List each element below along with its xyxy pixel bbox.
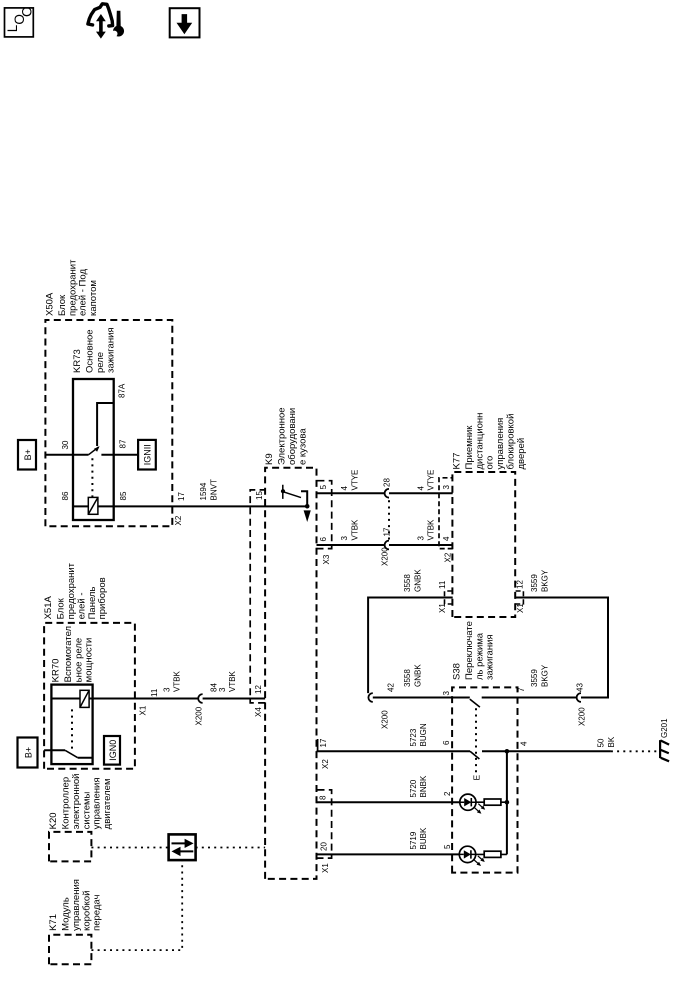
svg-text:E: E bbox=[471, 775, 481, 781]
connector X4 strip on K9 top edge bbox=[250, 490, 265, 703]
svg-text:BNVT: BNVT bbox=[209, 479, 218, 500]
svg-text:85: 85 bbox=[119, 491, 128, 500]
svg-text:X1: X1 bbox=[438, 603, 447, 613]
S38 ganged switch dotted link bbox=[475, 708, 477, 772]
serial data symbol box bbox=[169, 834, 196, 860]
inline connector X200 pin 17 bbox=[385, 541, 389, 550]
svg-text:11: 11 bbox=[150, 688, 159, 697]
svg-text:системы: системы bbox=[81, 791, 92, 829]
wire B+ to KR73 pin 30 bbox=[45, 454, 88, 456]
IGNII box bbox=[138, 440, 156, 470]
ground symbol G201 bbox=[659, 740, 661, 758]
svg-text:двигателем: двигателем bbox=[102, 778, 113, 829]
LED rail wire bbox=[506, 751, 508, 854]
page-oriented toolbar icons bbox=[0, 0, 220, 60]
KR73 87 fixed contact bbox=[101, 454, 113, 456]
X1 stub at K77 pin 11 bbox=[445, 591, 453, 604]
S38 contact blade pin 3 bbox=[470, 699, 480, 707]
svg-text:X200: X200 bbox=[381, 547, 390, 566]
svg-text:Переключате: Переключате bbox=[464, 621, 475, 680]
block K77 keyless entry receiver - dashed enclosure bbox=[452, 472, 515, 617]
KR70 coil-blade dotted link bbox=[71, 707, 73, 748]
LED indicator 1 (pin 2) bbox=[460, 794, 476, 810]
svg-text:дистанционн: дистанционн bbox=[474, 413, 485, 470]
svg-text:X2: X2 bbox=[174, 515, 183, 525]
wire 3559 BKGY: S38 pin7 down via X200-43 to K77 X1-12 bbox=[518, 697, 577, 699]
wire 3 VTBK from K9 X3-6 via X200-17 to K77 X2-4 bbox=[317, 544, 385, 546]
wire 4 VTYE from K9 X3-5 via X200-28 to K77 X2-3 bbox=[317, 492, 385, 494]
svg-text:4: 4 bbox=[520, 741, 529, 746]
svg-text:3558: 3558 bbox=[403, 574, 412, 592]
wire 5723 BUGN from K9 X2-17 to S38 pin 6 bbox=[317, 750, 471, 752]
svg-text:KR70: KR70 bbox=[50, 659, 61, 683]
dotted link between X200 arcs bbox=[388, 499, 390, 540]
svg-text:Панель: Панель bbox=[87, 587, 98, 620]
svg-text:K71: K71 bbox=[48, 914, 59, 931]
svg-text:мощности: мощности bbox=[84, 638, 95, 683]
svg-text:3: 3 bbox=[162, 687, 171, 692]
S38 pin6-pin4 wire lower part bbox=[482, 750, 518, 752]
svg-text:Блок: Блок bbox=[57, 294, 68, 316]
svg-text:коробкой: коробкой bbox=[81, 890, 92, 930]
svg-text:блокировкой: блокировкой bbox=[506, 414, 517, 470]
X1 stub at K77 pin 12 bbox=[515, 591, 523, 604]
svg-text:6: 6 bbox=[319, 537, 328, 542]
svg-text:Вспомогател: Вспомогател bbox=[63, 626, 74, 682]
svg-text:Контроллер: Контроллер bbox=[61, 777, 72, 829]
svg-text:X50A: X50A bbox=[44, 292, 55, 316]
svg-text:электронной: электронной bbox=[71, 774, 82, 830]
block K71 transmission control module - dashed box bbox=[49, 935, 91, 965]
svg-text:K20: K20 bbox=[48, 812, 59, 829]
svg-text:X2: X2 bbox=[444, 552, 453, 562]
svg-text:K77: K77 bbox=[451, 453, 462, 470]
IGN0 box bbox=[104, 736, 120, 765]
svg-text:VTYE: VTYE bbox=[427, 470, 436, 491]
svg-text:3559: 3559 bbox=[530, 574, 539, 592]
svg-text:B+: B+ bbox=[23, 449, 33, 460]
svg-text:50: 50 bbox=[597, 738, 606, 747]
svg-text:BUGN: BUGN bbox=[419, 723, 428, 746]
KR70 coil bbox=[80, 690, 89, 707]
B+ box (top, for KR73) bbox=[18, 440, 36, 470]
svg-text:C: C bbox=[20, 7, 35, 17]
svg-text:2: 2 bbox=[443, 791, 452, 796]
connector X2 stub pin 17 on K9 bbox=[317, 739, 319, 751]
block K9 BCM - dashed enclosure bbox=[265, 468, 316, 879]
KR73 switch blade 30-87A bbox=[89, 447, 99, 455]
svg-text:3: 3 bbox=[442, 691, 451, 696]
svg-text:3558: 3558 bbox=[403, 669, 412, 687]
svg-text:управления: управления bbox=[71, 879, 82, 931]
svg-text:17: 17 bbox=[383, 527, 392, 536]
wire 5720 BNBK from K9 X1-8 to S38 pin 2 bbox=[317, 801, 460, 803]
svg-text:5719: 5719 bbox=[409, 831, 418, 849]
svg-text:Приемник: Приемник bbox=[464, 425, 475, 470]
connector X2 strip on K77 top edge bbox=[439, 478, 453, 549]
svg-text:реле: реле bbox=[95, 352, 106, 373]
svg-text:5: 5 bbox=[443, 844, 452, 849]
svg-text:Модуль: Модуль bbox=[61, 897, 72, 931]
LED1 emission arrows bbox=[475, 808, 481, 813]
KR73 coil-blade dotted link bbox=[91, 457, 93, 497]
svg-text:3559: 3559 bbox=[530, 669, 539, 687]
block X51A fuse block - dashed enclosure bbox=[44, 623, 135, 769]
svg-text:11: 11 bbox=[438, 580, 447, 589]
svg-text:VTBK: VTBK bbox=[228, 670, 237, 692]
svg-text:Электронное: Электронное bbox=[277, 407, 288, 465]
svg-text:X3: X3 bbox=[322, 554, 331, 564]
svg-text:3: 3 bbox=[340, 536, 349, 541]
svg-text:BKGY: BKGY bbox=[540, 569, 549, 592]
dotted wire to G201 bbox=[611, 750, 659, 752]
svg-text:X1: X1 bbox=[321, 863, 330, 873]
svg-text:VTBK: VTBK bbox=[427, 519, 436, 541]
svg-text:3: 3 bbox=[442, 485, 451, 490]
KR70 switch blade bbox=[65, 750, 78, 757]
svg-text:87: 87 bbox=[118, 439, 127, 448]
icon vehicle with service wrench bbox=[88, 4, 113, 26]
svg-text:X2: X2 bbox=[321, 759, 330, 769]
svg-text:GNBK: GNBK bbox=[413, 569, 422, 592]
block S38 ignition mode switch - dashed enclosure bbox=[452, 687, 517, 872]
dotted data line K20 to symbol bbox=[91, 847, 168, 849]
svg-text:87A: 87A bbox=[117, 383, 126, 398]
block X50A fuse block - dashed enclosure bbox=[45, 320, 172, 526]
svg-text:6: 6 bbox=[442, 740, 451, 745]
svg-text:8: 8 bbox=[318, 795, 327, 800]
svg-text:30: 30 bbox=[61, 440, 70, 449]
S38 pin3-pin7 wire upper part bbox=[452, 697, 470, 699]
wire 1594 BNVT from KR73 pin 85 / X2-17 to K9 X4-15 bbox=[114, 505, 308, 507]
K9 junction dot on 1594 wire bbox=[305, 504, 310, 509]
svg-text:17: 17 bbox=[319, 738, 328, 747]
svg-text:предохранит: предохранит bbox=[66, 562, 77, 619]
svg-text:1594: 1594 bbox=[199, 482, 208, 500]
svg-text:зажигания: зажигания bbox=[105, 327, 116, 373]
svg-text:X51A: X51A bbox=[43, 595, 54, 619]
svg-text:оборудовани: оборудовани bbox=[287, 408, 298, 465]
K9 switch blade bbox=[284, 492, 301, 498]
wire B+ to KR70 switch bbox=[44, 749, 65, 751]
KR73 blade arrowhead bbox=[94, 446, 100, 452]
svg-text:приборов: приборов bbox=[97, 577, 108, 619]
KR70 coil feed from box edge bbox=[51, 698, 80, 700]
K9 switch contact dot bbox=[281, 489, 285, 493]
svg-text:S38: S38 bbox=[451, 663, 462, 680]
svg-text:BNBK: BNBK bbox=[419, 775, 428, 797]
dotted data line K71 to symbol bbox=[91, 860, 182, 950]
inline connector X200 pin 84 bbox=[198, 694, 202, 703]
svg-text:3: 3 bbox=[218, 687, 227, 692]
S38 contact blade pin 6 bbox=[470, 751, 479, 759]
svg-text:3: 3 bbox=[416, 536, 425, 541]
svg-text:Блок: Блок bbox=[56, 597, 67, 619]
svg-text:VTYE: VTYE bbox=[350, 470, 359, 491]
svg-text:12: 12 bbox=[516, 580, 525, 589]
connector X1 strip on K9 bottom edge bbox=[317, 790, 332, 858]
svg-text:передач: передач bbox=[92, 894, 103, 930]
svg-text:42: 42 bbox=[387, 683, 396, 692]
serial data down arrow bbox=[172, 842, 186, 844]
svg-text:5: 5 bbox=[319, 484, 328, 489]
svg-text:VTBK: VTBK bbox=[350, 519, 359, 541]
svg-text:елей - Под: елей - Под bbox=[78, 269, 89, 316]
svg-text:управления: управления bbox=[495, 418, 506, 470]
junction dot pin6 wire to LED rail bbox=[505, 749, 510, 754]
B+ box (for KR70) bbox=[18, 738, 38, 768]
icon download/full-size arrow box bbox=[170, 8, 200, 37]
svg-text:X200: X200 bbox=[578, 707, 587, 726]
KR73 coil to pin 85 bbox=[98, 505, 114, 507]
svg-text:G201: G201 bbox=[660, 718, 669, 738]
svg-text:43: 43 bbox=[576, 683, 585, 692]
svg-text:28: 28 bbox=[383, 478, 392, 487]
svg-text:B+: B+ bbox=[24, 747, 34, 758]
svg-text:IGNII: IGNII bbox=[143, 444, 153, 465]
relay KR73 box bbox=[73, 379, 114, 520]
resistor R1 bbox=[484, 799, 501, 805]
KR73 87A contact path bbox=[97, 403, 114, 446]
LED2 emission arrows bbox=[474, 860, 480, 865]
svg-text:BK: BK bbox=[607, 736, 616, 747]
K9 internal switch contact bar bbox=[282, 485, 284, 499]
svg-text:капотом: капотом bbox=[88, 280, 99, 316]
svg-text:е кузова: е кузова bbox=[297, 428, 308, 465]
svg-text:4: 4 bbox=[442, 536, 451, 541]
svg-text:BKGY: BKGY bbox=[540, 664, 549, 687]
KR73 coil bbox=[88, 497, 98, 514]
junction dot LED1 branch bbox=[505, 800, 510, 805]
S38 pin3-pin7 wire lower part bbox=[482, 697, 518, 699]
svg-text:X4: X4 bbox=[254, 707, 263, 717]
inline connector X200 pin 28 bbox=[385, 489, 389, 498]
wire 5719 BUBK from K9 X1-20 to S38 pin 5 bbox=[317, 853, 460, 855]
svg-text:ьное реле: ьное реле bbox=[73, 638, 84, 682]
svg-text:дверей: дверей bbox=[516, 438, 527, 470]
KR73 coil feed wire pin 86 bbox=[73, 505, 88, 507]
wire 3 VTBK from KR70 pin 11 via X200-84 to K9 X4-12 bbox=[89, 698, 198, 700]
svg-text:IGN0: IGN0 bbox=[108, 740, 118, 761]
dotted data line symbol to K9 bbox=[196, 847, 266, 849]
svg-text:5720: 5720 bbox=[409, 779, 418, 797]
svg-text:7: 7 bbox=[517, 687, 526, 692]
svg-text:5723: 5723 bbox=[409, 728, 418, 746]
svg-text:ль режима: ль режима bbox=[474, 632, 485, 680]
relay KR70 box bbox=[51, 685, 92, 765]
LED indicator 2 (pin 5) bbox=[459, 846, 475, 862]
wire R2 to rail corner bbox=[501, 853, 507, 855]
connector X3 strip on K9 bottom edge bbox=[317, 481, 332, 549]
inline connector X200 pin 43 bbox=[577, 693, 581, 702]
svg-text:15: 15 bbox=[255, 491, 264, 500]
svg-text:елей -: елей - bbox=[76, 592, 87, 619]
wire 50 BK from S38 pin 4 to ground bbox=[518, 750, 611, 752]
serial data up arrow bbox=[179, 850, 193, 852]
inline connector X200 pin 42 bbox=[368, 693, 372, 702]
svg-text:ого: ого bbox=[485, 456, 496, 470]
wire 87 to IGNII bbox=[114, 454, 138, 456]
svg-text:предохранит: предохранит bbox=[67, 259, 78, 316]
KR70 fixed contact to box edge bbox=[78, 757, 93, 759]
svg-text:X1: X1 bbox=[138, 705, 147, 715]
block K20 engine control module - dashed box bbox=[49, 832, 91, 862]
svg-text:зажигания: зажигания bbox=[485, 634, 496, 680]
svg-text:X200: X200 bbox=[195, 706, 204, 725]
svg-text:K9: K9 bbox=[264, 453, 275, 465]
K9 actuator arrow bbox=[304, 510, 311, 522]
wire LED2 to resistor R2 bbox=[476, 853, 485, 855]
wire 3558 GNBK: S38 pin3 up via X200-42 to K77 X1-11 bbox=[373, 697, 452, 699]
svg-text:Основное: Основное bbox=[85, 329, 96, 373]
svg-text:VTBK: VTBK bbox=[173, 670, 182, 692]
svg-text:20: 20 bbox=[319, 842, 328, 851]
svg-text:BUBK: BUBK bbox=[419, 827, 428, 849]
resistor R2 bbox=[484, 851, 501, 857]
svg-text:X1: X1 bbox=[516, 603, 525, 613]
wire LED1 to resistor R1 bbox=[476, 801, 484, 803]
wire R1 to rail bbox=[501, 801, 507, 803]
svg-text:X200: X200 bbox=[380, 710, 389, 729]
svg-text:17: 17 bbox=[177, 492, 186, 501]
svg-text:управления: управления bbox=[92, 777, 103, 829]
svg-text:12: 12 bbox=[254, 685, 263, 694]
svg-text:GNBK: GNBK bbox=[413, 664, 422, 687]
icon LOC box bbox=[5, 8, 34, 37]
svg-text:86: 86 bbox=[61, 491, 70, 500]
svg-text:KR73: KR73 bbox=[72, 349, 83, 373]
svg-text:4: 4 bbox=[416, 486, 425, 491]
K9 switch output segment bbox=[301, 491, 307, 504]
svg-text:4: 4 bbox=[340, 486, 349, 491]
